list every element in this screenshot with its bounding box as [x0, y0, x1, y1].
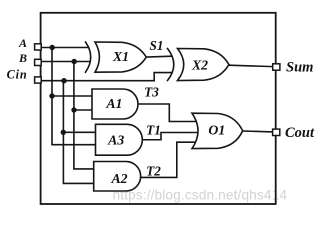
svg-text:A: A [18, 36, 27, 50]
svg-text:A3: A3 [107, 133, 124, 148]
svg-text:X2: X2 [191, 57, 208, 72]
svg-text:A1: A1 [105, 96, 122, 111]
svg-text:Cin: Cin [7, 68, 28, 82]
svg-text:T1: T1 [146, 123, 161, 138]
svg-text:Sum: Sum [286, 59, 313, 75]
svg-text:X1: X1 [112, 49, 129, 64]
svg-text:O1: O1 [208, 123, 225, 138]
svg-text:Cout: Cout [285, 125, 315, 141]
svg-text:B: B [18, 51, 27, 65]
svg-text:https://blog.csdn.net/qhs414: https://blog.csdn.net/qhs414 [113, 188, 288, 203]
svg-text:T2: T2 [146, 164, 161, 179]
svg-text:A2: A2 [110, 171, 127, 186]
svg-text:S1: S1 [150, 38, 164, 53]
svg-text:T3: T3 [144, 85, 159, 100]
